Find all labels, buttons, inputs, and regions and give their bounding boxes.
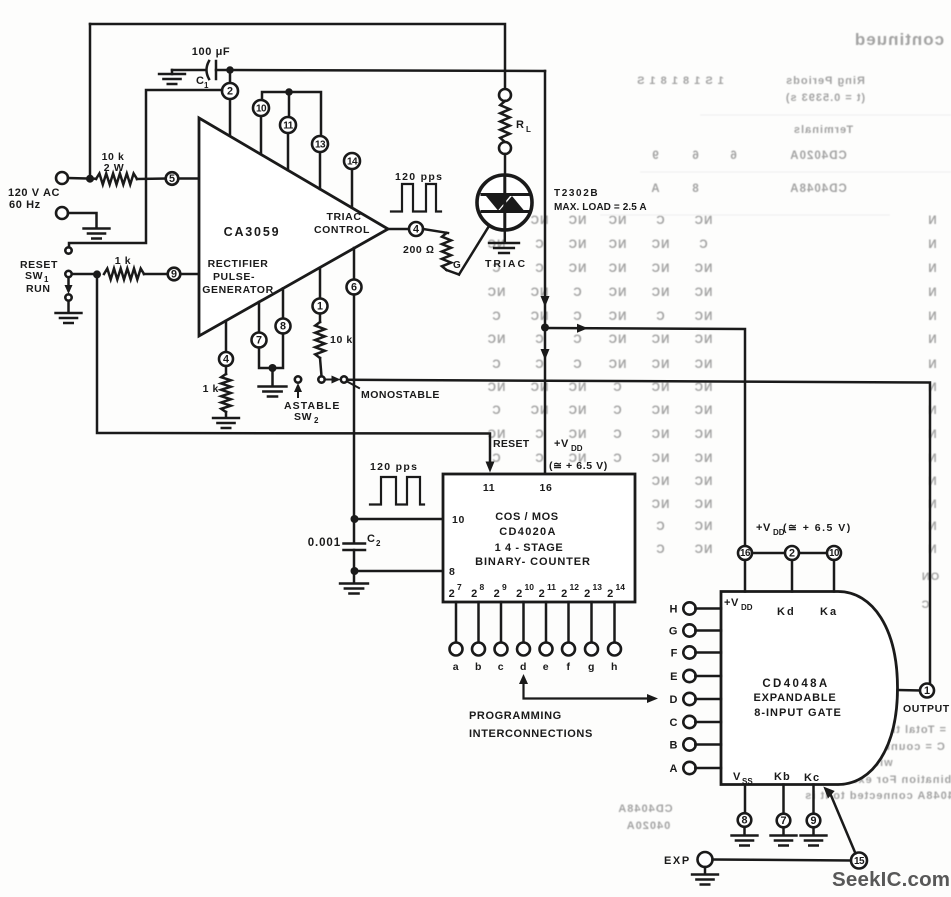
gate input D — [683, 693, 695, 705]
svg-text:2 W: 2 W — [104, 162, 124, 174]
node junction SW1/reset-line — [93, 270, 101, 278]
gate bottom pin Kb (7) — [782, 785, 785, 815]
svg-text:A: A — [669, 763, 678, 775]
label MONOSTABLE with leader — [348, 382, 359, 388]
svg-text:N: N — [927, 287, 936, 299]
svg-text:7: 7 — [457, 582, 462, 592]
wire +VDD branch to CD4048A pin16 — [545, 328, 745, 546]
svg-text:8: 8 — [741, 815, 747, 827]
svg-text:TRIAC: TRIAC — [326, 211, 361, 223]
pin 8 — [282, 289, 285, 319]
svg-text:NC: NC — [651, 499, 670, 511]
svg-text:11: 11 — [283, 120, 294, 131]
svg-text:C: C — [572, 359, 581, 371]
svg-text:SS: SS — [742, 777, 753, 786]
svg-text:10: 10 — [452, 514, 465, 526]
wire AC neutral to ground — [68, 213, 97, 228]
svg-text:CD4020A: CD4020A — [499, 526, 556, 538]
svg-text:13: 13 — [593, 582, 603, 592]
svg-text:SeekIC.com: SeekIC.com — [832, 868, 950, 891]
switch SW1 run contact — [65, 294, 71, 300]
svg-text:L: L — [526, 125, 531, 134]
node junction bus pin11 — [285, 88, 293, 96]
op-amp U1 CA3059 triangle — [199, 118, 388, 336]
svg-text:NC: NC — [608, 263, 627, 275]
gate bottom pin Kc (9) — [812, 785, 815, 815]
svg-text:9: 9 — [651, 150, 658, 162]
svg-text:SW: SW — [294, 411, 312, 423]
pin 1 — [319, 268, 322, 299]
svg-text:120 V AC: 120 V AC — [8, 187, 60, 199]
svg-text:NC: NC — [651, 405, 670, 417]
pin 1 output — [920, 684, 934, 698]
svg-text:10: 10 — [525, 582, 535, 592]
svg-text:RESET: RESET — [493, 438, 530, 450]
svg-text:1 4 - STAGE: 1 4 - STAGE — [495, 542, 564, 554]
wire +VDD rail vertical to CD4020A pin16 — [544, 71, 547, 474]
wire CA3059 pin4 output — [388, 228, 409, 231]
bleed: mirrored table cells — [487, 215, 937, 556]
svg-text:C: C — [367, 533, 376, 545]
svg-text:C: C — [534, 453, 543, 465]
svg-text:10 k: 10 k — [330, 334, 353, 346]
gate input G — [683, 624, 695, 636]
waveform 120pps at pin4 — [391, 184, 441, 212]
BLEEDTHROUGH-LAYER — [487, 30, 951, 832]
svg-text:C: C — [534, 359, 543, 371]
svg-text:13: 13 — [315, 139, 326, 150]
svg-text:4: 4 — [223, 354, 229, 366]
terminal 120V AC hot — [56, 172, 68, 184]
svg-text:7: 7 — [256, 335, 262, 347]
triac T2302B — [477, 175, 532, 230]
svg-text:B: B — [669, 740, 678, 752]
svg-text:MAX. LOAD = 2.5 A: MAX. LOAD = 2.5 A — [554, 202, 647, 213]
svg-text:NC: NC — [568, 263, 587, 275]
pin 5 — [166, 172, 179, 185]
svg-text:8: 8 — [280, 321, 286, 333]
svg-text:A: A — [650, 183, 659, 195]
gate input C — [683, 716, 695, 728]
svg-text:OUTPUT: OUTPUT — [903, 703, 950, 715]
svg-text:6: 6 — [691, 150, 698, 162]
svg-text:C: C — [491, 359, 500, 371]
svg-text:N: N — [927, 499, 936, 511]
svg-text:NC: NC — [651, 239, 670, 251]
svg-text:N: N — [927, 453, 936, 465]
gate output wire — [898, 689, 921, 692]
pin 16 gate — [738, 546, 752, 560]
svg-text:NC: NC — [651, 359, 670, 371]
svg-text:N: N — [927, 521, 936, 533]
svg-text:N: N — [927, 359, 936, 371]
svg-text:+V: +V — [724, 597, 739, 609]
svg-text:N: N — [927, 239, 936, 251]
svg-text:N: N — [927, 476, 936, 488]
svg-text:TRIAC: TRIAC — [485, 258, 527, 270]
resistor 10k 2W — [96, 174, 137, 185]
svg-text:C: C — [534, 239, 543, 251]
svg-text:Kc: Kc — [804, 772, 820, 784]
node junction C2 top (pin10) — [351, 515, 359, 523]
svg-text:ASTABLE: ASTABLE — [284, 400, 341, 412]
svg-text:R: R — [516, 119, 525, 131]
svg-text:NC: NC — [694, 544, 713, 556]
svg-text:C: C — [491, 311, 500, 323]
svg-text:200 Ω: 200 Ω — [403, 244, 435, 256]
svg-text:NC: NC — [568, 215, 587, 227]
svg-text:INTERCONNECTIONS: INTERCONNECTIONS — [469, 728, 593, 740]
bleed: faint rules — [600, 115, 951, 215]
svg-text:2: 2 — [584, 588, 591, 600]
node junction C2 bottom (pin8) — [351, 567, 359, 575]
svg-text:2: 2 — [376, 539, 381, 548]
svg-text:DD: DD — [571, 444, 583, 453]
wire gate to triac — [459, 212, 498, 275]
svg-text:120 pps: 120 pps — [395, 171, 443, 183]
svg-text:C: C — [698, 239, 707, 251]
svg-text:N: N — [927, 263, 936, 275]
svg-text:2: 2 — [516, 588, 523, 600]
ground EXP — [692, 875, 718, 885]
svg-text:C: C — [655, 544, 664, 556]
svg-text:NC: NC — [651, 263, 670, 275]
svg-text:NC: NC — [651, 287, 670, 299]
svg-text:C: C — [534, 334, 543, 346]
ground 1k — [213, 418, 239, 428]
svg-text:NC: NC — [694, 215, 713, 227]
svg-text:EXP: EXP — [664, 855, 691, 867]
pin 10 — [260, 116, 263, 154]
bleed: header continued — [636, 30, 944, 195]
svg-text:NC: NC — [694, 263, 713, 275]
capacitor C2 0.001 — [344, 544, 366, 551]
svg-text:16: 16 — [740, 548, 751, 559]
resistor 1k (pin4) — [225, 366, 228, 374]
svg-text:MONOSTABLE: MONOSTABLE — [361, 389, 440, 401]
svg-text:D: D — [669, 694, 678, 706]
svg-text:C: C — [612, 453, 621, 465]
gate input E — [683, 670, 695, 682]
node junction AC hot — [86, 175, 94, 183]
IC U2 CD4020A binary counter box — [443, 474, 635, 602]
svg-text:NC: NC — [487, 334, 506, 346]
svg-text:C: C — [655, 521, 664, 533]
counter pin 2^14 terminal h — [613, 602, 616, 643]
pin 10 gate — [799, 552, 827, 555]
svg-text:G: G — [453, 260, 461, 271]
switch SW1 wiper — [65, 271, 71, 277]
svg-text:14: 14 — [616, 582, 626, 592]
svg-text:Ka: Ka — [820, 606, 838, 618]
svg-text:(≅ + 6.5 V): (≅ + 6.5 V) — [783, 522, 852, 534]
svg-text:8: 8 — [691, 183, 698, 195]
counter pin 2^10 terminal d — [522, 602, 525, 643]
svg-text:NC: NC — [651, 453, 670, 465]
svg-text:2: 2 — [314, 416, 319, 425]
svg-text:Ring Periods: Ring Periods — [785, 75, 865, 87]
svg-text:7: 7 — [780, 815, 786, 827]
svg-text:5: 5 — [169, 173, 175, 185]
svg-text:60 Hz: 60 Hz — [9, 199, 41, 211]
svg-text:F: F — [671, 648, 678, 660]
gate input H — [683, 602, 695, 614]
svg-text:2: 2 — [561, 588, 568, 600]
svg-text:8: 8 — [449, 566, 455, 578]
waveform 120pps at counter — [370, 477, 424, 505]
svg-text:continued: continued — [854, 30, 944, 49]
bleed: bottom notes — [617, 571, 951, 832]
svg-text:G: G — [669, 626, 678, 638]
wire top feed from AC hot to RL — [90, 24, 505, 89]
wire counter pin10 — [355, 518, 444, 521]
ground AC neutral — [84, 229, 110, 239]
svg-text:NC: NC — [487, 287, 506, 299]
svg-text:14: 14 — [347, 156, 358, 167]
pin 6 — [353, 248, 356, 280]
svg-text:Kd: Kd — [777, 606, 796, 618]
svg-text:C: C — [655, 311, 664, 323]
svg-text:C: C — [534, 263, 543, 275]
capacitor C1 100uF — [172, 69, 206, 72]
svg-text:2: 2 — [471, 588, 478, 600]
svg-text:DD: DD — [741, 603, 753, 612]
wire resistor to pin9 — [144, 273, 168, 276]
svg-text:NC: NC — [694, 521, 713, 533]
svg-text:Terminals: Terminals — [793, 124, 853, 136]
svg-text:d: d — [520, 661, 527, 673]
svg-text:NC: NC — [568, 382, 587, 394]
svg-text:C: C — [612, 382, 621, 394]
svg-text:h: h — [611, 661, 618, 673]
svg-text:15: 15 — [854, 856, 865, 867]
wire pins 7,8 to ground — [259, 334, 283, 369]
svg-text:CD4048A: CD4048A — [789, 183, 847, 195]
svg-text:(≅ + 6.5 V): (≅ + 6.5 V) — [549, 460, 608, 472]
svg-text:C: C — [655, 215, 664, 227]
counter pin 2^13 terminal g — [590, 602, 593, 643]
wire counter pin8 — [355, 570, 444, 573]
wire resistor to pin5 — [137, 177, 166, 180]
svg-text:2: 2 — [494, 588, 501, 600]
svg-text:9: 9 — [810, 815, 816, 827]
wire monostable to output node — [347, 380, 930, 685]
svg-text:GENERATOR: GENERATOR — [202, 284, 274, 296]
svg-text:NC: NC — [694, 499, 713, 511]
svg-text:NC: NC — [608, 215, 627, 227]
svg-text:f: f — [566, 661, 570, 673]
pin 4 output — [409, 222, 423, 236]
svg-text:1: 1 — [204, 81, 209, 90]
svg-text:2: 2 — [539, 588, 546, 600]
svg-text:N: N — [927, 382, 936, 394]
svg-text:CD4020A: CD4020A — [789, 150, 847, 162]
ground C2 — [340, 584, 368, 594]
switch monostable contacts — [318, 376, 324, 382]
counter pin 2^7 terminal a — [455, 602, 458, 643]
svg-text:EXPANDABLE: EXPANDABLE — [754, 692, 837, 704]
svg-text:16: 16 — [540, 482, 553, 494]
svg-text:C: C — [572, 287, 581, 299]
svg-text:C: C — [921, 599, 930, 611]
svg-text:NC: NC — [568, 239, 587, 251]
svg-text:RECTIFIER: RECTIFIER — [208, 258, 269, 270]
svg-text:1: 1 — [317, 301, 323, 313]
svg-text:+V: +V — [756, 522, 771, 534]
svg-text:PROGRAMMING: PROGRAMMING — [469, 710, 562, 722]
wire +VDD rail horizontal — [230, 70, 545, 71]
svg-text:4: 4 — [413, 224, 419, 236]
svg-text:NC: NC — [608, 311, 627, 323]
svg-text:1 S 1 8 1 8 1 S: 1 S 1 8 1 8 1 S — [636, 75, 724, 87]
wire pin15 arrow to Kc — [830, 793, 856, 854]
svg-text:N: N — [927, 334, 936, 346]
svg-text:NC: NC — [694, 311, 713, 323]
counter pin 2^11 terminal e — [545, 602, 548, 643]
svg-text:N: N — [927, 215, 936, 227]
svg-text:04020A: 04020A — [626, 820, 671, 832]
svg-text:120 pps: 120 pps — [370, 461, 418, 473]
svg-text:H: H — [669, 604, 678, 616]
svg-text:NC: NC — [651, 334, 670, 346]
svg-text:(t = 0.5393 s): (t = 0.5393 s) — [785, 92, 865, 104]
svg-text:8-INPUT GATE: 8-INPUT GATE — [754, 707, 842, 719]
pin 13 — [319, 152, 322, 189]
svg-text:PULSE-: PULSE- — [213, 271, 255, 283]
svg-text:6: 6 — [729, 150, 736, 162]
svg-text:0.001: 0.001 — [308, 537, 341, 549]
counter pin 2^12 terminal f — [567, 602, 570, 643]
resistor 10k (pin1) — [319, 314, 322, 323]
svg-text:10: 10 — [256, 103, 267, 114]
node junction C1/pin2/+VDD — [226, 66, 234, 74]
svg-text:1 k: 1 k — [203, 383, 219, 395]
svg-text:C: C — [572, 334, 581, 346]
svg-text:b: b — [475, 661, 482, 673]
svg-text:C: C — [572, 311, 581, 323]
svg-text:11: 11 — [547, 582, 556, 592]
svg-text:e: e — [543, 661, 549, 673]
switch SW2 astable contact — [295, 376, 301, 382]
svg-text:NC: NC — [487, 382, 506, 394]
svg-text:10: 10 — [829, 548, 840, 559]
svg-text:NC: NC — [651, 429, 670, 441]
wire pin9 to CA3059 — [180, 273, 199, 276]
ground at C1 — [171, 70, 174, 74]
svg-text:c: c — [498, 661, 504, 673]
resistor 200 ohm — [423, 229, 448, 233]
ground pins 7,8 — [259, 387, 287, 397]
gate input F — [683, 646, 695, 658]
svg-text:NC: NC — [694, 287, 713, 299]
svg-text:C: C — [612, 405, 621, 417]
svg-text:C: C — [669, 717, 678, 729]
svg-text:C: C — [612, 429, 621, 441]
wire reset line to CD4020A pin 11 — [97, 274, 490, 468]
terminal 120V AC neutral — [56, 207, 68, 219]
wire pin6 down to counter input — [353, 295, 356, 543]
svg-text:C: C — [534, 429, 543, 441]
svg-text:NC: NC — [651, 382, 670, 394]
wire bus pins 10-11-13 — [262, 92, 321, 136]
gate input A — [683, 762, 695, 774]
svg-text:N: N — [927, 311, 936, 323]
svg-text:COS / MOS: COS / MOS — [495, 511, 558, 523]
svg-text:12: 12 — [570, 582, 580, 592]
svg-text:NC: NC — [608, 287, 627, 299]
svg-text:NC: NC — [694, 405, 713, 417]
pin 15 — [851, 853, 867, 869]
svg-text:NC: NC — [694, 476, 713, 488]
svg-text:2: 2 — [789, 548, 795, 560]
svg-text:V: V — [733, 771, 741, 783]
pin 9 — [168, 268, 181, 281]
wire AC hot to resistor — [68, 177, 96, 180]
ground triac — [489, 243, 519, 253]
svg-text:g: g — [588, 661, 595, 673]
wire EXP to pin 15 — [713, 860, 852, 861]
svg-text:N: N — [927, 544, 936, 556]
pin 4 stem bottom — [225, 321, 228, 352]
svg-text:NC: NC — [694, 334, 713, 346]
svg-text:100 μF: 100 μF — [192, 46, 230, 58]
svg-text:CONTROL: CONTROL — [314, 224, 370, 236]
resistor RL — [499, 89, 511, 101]
pin 2 — [222, 83, 238, 99]
svg-text:2: 2 — [449, 588, 456, 600]
counter pin 2^8 terminal b — [477, 602, 480, 643]
svg-text:CD4048A: CD4048A — [617, 803, 672, 815]
svg-text:T2302B: T2302B — [554, 188, 599, 199]
svg-text:2: 2 — [607, 588, 614, 600]
pin 11 — [287, 133, 290, 170]
svg-text:NC: NC — [651, 476, 670, 488]
wire pin2 to SW1 reset contact — [69, 90, 222, 247]
svg-text:Kb: Kb — [774, 771, 791, 783]
svg-text:8: 8 — [480, 582, 485, 592]
wire pin2 stem — [229, 70, 232, 83]
ground SW1 run — [56, 313, 82, 323]
svg-text:NC: NC — [694, 453, 713, 465]
wire SW1 to 1k — [72, 273, 97, 276]
svg-text:9: 9 — [502, 582, 507, 592]
svg-text:a: a — [453, 661, 459, 673]
pin 2 gate — [752, 552, 785, 555]
svg-text:NC: NC — [608, 334, 627, 346]
svg-text:BINARY- COUNTER: BINARY- COUNTER — [475, 556, 591, 568]
svg-text:NC: NC — [608, 359, 627, 371]
svg-text:NC: NC — [694, 382, 713, 394]
svg-text:CD4048A: CD4048A — [762, 678, 829, 690]
wire triac to ground — [504, 230, 507, 243]
pin 4 — [219, 352, 233, 366]
svg-text:N: N — [927, 405, 936, 417]
gate U3 CD4048A — [721, 592, 898, 785]
gate input B — [683, 738, 695, 750]
svg-text:1: 1 — [924, 685, 930, 697]
svg-text:6: 6 — [351, 282, 357, 294]
svg-text:N: N — [927, 429, 936, 441]
svg-text:2: 2 — [227, 86, 233, 98]
svg-text:9: 9 — [171, 269, 177, 281]
svg-text:NC: NC — [694, 359, 713, 371]
wire pin5 to CA3059 — [178, 177, 199, 180]
svg-text:C: C — [491, 405, 500, 417]
svg-text:1 k: 1 k — [115, 255, 131, 267]
svg-text:SW: SW — [25, 270, 43, 282]
switch SW1 reset contact — [65, 247, 71, 253]
node junction +VDD branch — [541, 324, 549, 332]
